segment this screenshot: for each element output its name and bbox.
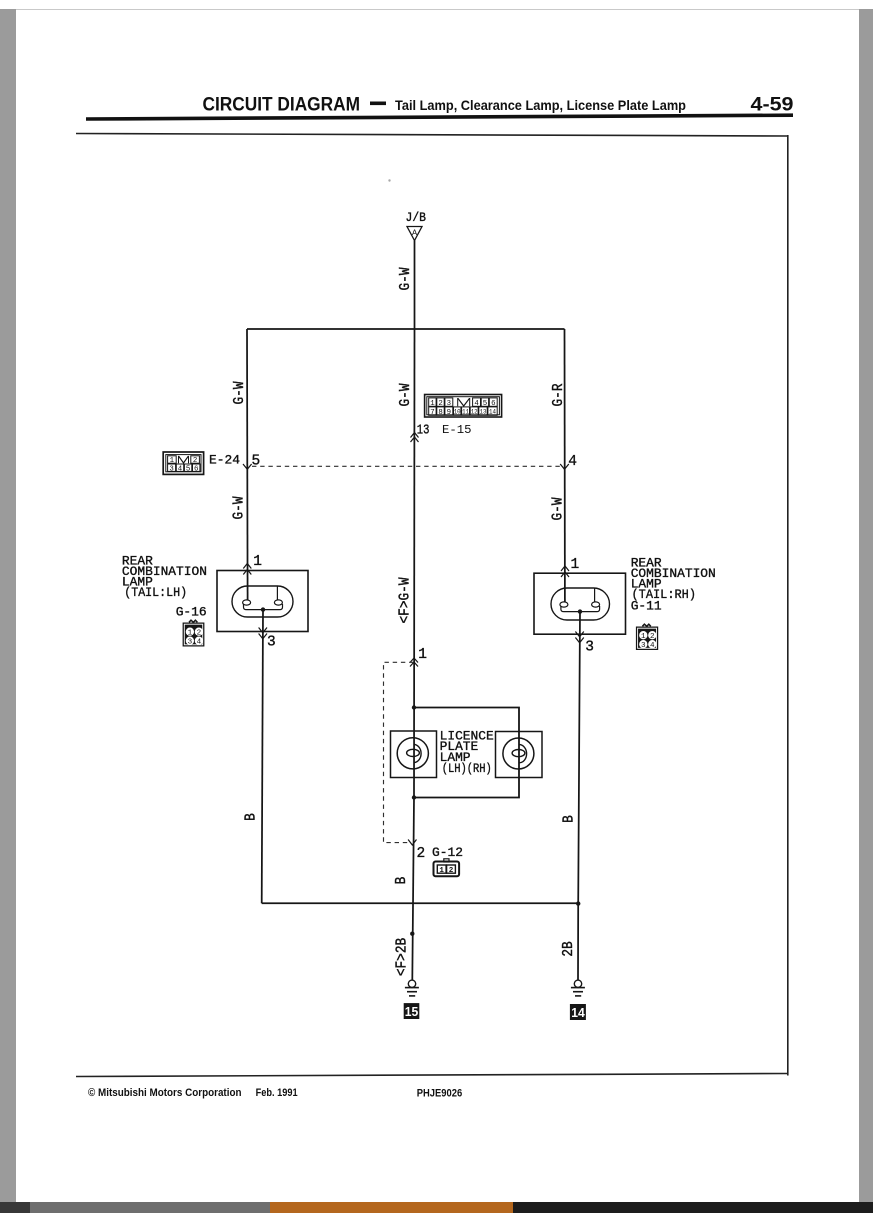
svg-text:1: 1: [188, 630, 193, 638]
svg-text:<F>2B: <F>2B: [395, 938, 411, 976]
frame right: [787, 135, 789, 1076]
wire: right lamp exit down to bottom bus and ground: [578, 612, 580, 981]
connector G-11 icon: [636, 624, 658, 650]
svg-text:2: 2: [197, 630, 202, 638]
svg-text:J/B: J/B: [406, 211, 427, 225]
scan speck: [388, 179, 390, 181]
node 13 chevrons up on center wire: [411, 433, 419, 443]
wire: J/B feed down to top bus: [414, 241, 416, 330]
svg-text:G-11: G-11: [631, 599, 662, 614]
svg-text:2: 2: [193, 457, 197, 465]
svg-text:G-W: G-W: [232, 496, 248, 520]
header title: [203, 94, 794, 116]
node: bus meets right lamp wire: [576, 901, 580, 905]
svg-text:13: 13: [480, 409, 487, 417]
svg-text:2B: 2B: [561, 941, 577, 956]
right viewer strip: [859, 9, 873, 1202]
bulb filament left: [243, 586, 283, 610]
connector E-24 pin box: [163, 452, 203, 474]
lamp: right rear combination lamp box: [534, 573, 626, 634]
node: licence top junction: [412, 705, 416, 709]
svg-text:4: 4: [178, 465, 183, 473]
svg-text:5: 5: [483, 400, 487, 408]
svg-text:7: 7: [430, 409, 434, 417]
svg-text:2: 2: [650, 633, 655, 641]
wire: right branch down to right lamp bulb: [564, 329, 566, 602]
svg-text:8: 8: [438, 409, 442, 417]
svg-text:CIRCUIT DIAGRAM: CIRCUIT DIAGRAM: [203, 94, 361, 116]
dashed licence loop: [384, 662, 414, 842]
svg-text:G-W: G-W: [232, 381, 248, 405]
svg-text:2: 2: [438, 400, 442, 408]
connector E-15 labels: [417, 423, 472, 439]
footer: [88, 1087, 462, 1100]
svg-text:1: 1: [430, 400, 435, 408]
svg-text:PHJE9026: PHJE9026: [417, 1088, 463, 1100]
svg-text:13: 13: [417, 423, 430, 439]
svg-text:(LH)(RH): (LH)(RH): [442, 761, 492, 776]
bottom bar segment orange: [270, 1202, 513, 1213]
svg-text:4-59: 4-59: [751, 94, 794, 116]
bottom bar segment dark-left: [0, 1202, 30, 1213]
connector G-12 icon: [434, 859, 460, 877]
svg-text:3: 3: [169, 465, 173, 473]
svg-text:3: 3: [188, 639, 193, 647]
wire: left branch down to left lamp bulb: [246, 329, 249, 600]
svg-text:15: 15: [405, 1004, 419, 1019]
node: splice below bus on center wire: [410, 932, 414, 936]
svg-text:3: 3: [267, 635, 276, 651]
svg-text:© Mitsubishi Motors Corporatio: © Mitsubishi Motors Corporation: [88, 1087, 242, 1099]
frame top: [76, 134, 788, 137]
node: licence bottom junction: [412, 795, 416, 799]
wire: center down to ground: [412, 798, 414, 980]
svg-text:(TAIL:LH): (TAIL:LH): [124, 585, 187, 600]
licence left bulb: [397, 738, 428, 769]
svg-text:6: 6: [194, 465, 198, 473]
svg-text:E-24: E-24: [209, 453, 240, 468]
svg-text:1: 1: [439, 867, 444, 875]
svg-text:A: A: [412, 228, 418, 238]
connector J/B triangle A: [406, 211, 427, 241]
connector E-24 pin cells: [168, 456, 200, 472]
chevrons up licence entry: [410, 658, 418, 667]
svg-text:9: 9: [447, 409, 451, 417]
svg-text:4: 4: [474, 400, 479, 408]
ground 14: [571, 980, 585, 996]
licence left bulb box: [391, 731, 437, 778]
bulb stadium right: [551, 588, 610, 620]
svg-text:B: B: [394, 877, 410, 885]
svg-text:2: 2: [417, 846, 426, 862]
licence lamp outer box: [414, 708, 519, 798]
svg-text:1: 1: [641, 633, 646, 641]
left viewer strip: [0, 9, 16, 1202]
svg-text:1: 1: [253, 554, 262, 570]
arrow down at pin 4: [560, 464, 569, 469]
svg-text:1: 1: [571, 557, 580, 573]
svg-text:3: 3: [447, 400, 451, 408]
ground ref box 14: [570, 1004, 586, 1020]
svg-text:B: B: [562, 815, 578, 823]
svg-text:2: 2: [449, 867, 454, 875]
svg-text:<F>G-W: <F>G-W: [398, 577, 414, 624]
arrow down at pin 5: [243, 464, 252, 469]
arrow down at pin 2: [408, 840, 416, 846]
frame bottom: [76, 1074, 788, 1077]
svg-text:14: 14: [571, 1005, 585, 1020]
REAR COMBINATION LAMP (TAIL:LH) text: [122, 554, 207, 620]
wire: center branch down to licence lamp: [413, 329, 416, 798]
connector E-15 pin digits: [430, 400, 496, 417]
LICENCE PLATE LAMP text: [440, 728, 494, 776]
svg-text:G-16: G-16: [176, 605, 207, 620]
header rule: [86, 113, 793, 120]
bottom bar segment gray: [30, 1202, 270, 1213]
bottom bar segment black: [513, 1202, 873, 1213]
node: right bulb output junction: [578, 609, 582, 613]
chevrons down left lamp exit: [259, 628, 267, 639]
ground ref box 15: [404, 1003, 420, 1019]
svg-text:1: 1: [170, 457, 175, 465]
connector E-15 pin cells bottom row: [429, 407, 497, 415]
chevrons down right lamp exit: [575, 632, 583, 643]
connector G-16 icon: [183, 620, 205, 646]
connector E-24 pin digits: [169, 457, 198, 473]
bulb filament right: [560, 588, 600, 612]
svg-text:10: 10: [454, 409, 461, 417]
wire: left lamp exit down to bottom bus: [262, 610, 263, 904]
svg-text:5: 5: [252, 454, 261, 470]
svg-text:11: 11: [462, 409, 469, 417]
connector E-15 pin box: [425, 395, 502, 418]
lamp: left rear combination lamp box: [217, 571, 308, 632]
top bar separator: [0, 9, 873, 10]
svg-text:6: 6: [491, 400, 495, 408]
dashed E-24 link line: [252, 465, 560, 467]
ground 15: [405, 980, 419, 996]
wire: bottom bus: [262, 902, 579, 904]
svg-text:14: 14: [489, 409, 496, 417]
svg-text:E-15: E-15: [442, 423, 472, 437]
svg-text:4: 4: [568, 454, 577, 470]
svg-text:5: 5: [186, 465, 190, 473]
node: left bulb output junction: [261, 607, 265, 611]
svg-text:G-12: G-12: [432, 845, 463, 860]
REAR COMBINATION LAMP (TAIL:RH) text: [631, 556, 716, 614]
svg-text:3: 3: [641, 642, 646, 650]
svg-text:1: 1: [418, 647, 427, 663]
connector E-15 pin cells top row: [429, 398, 497, 406]
svg-text:3: 3: [585, 640, 594, 656]
svg-text:G-W: G-W: [398, 383, 414, 407]
svg-text:G-W: G-W: [551, 497, 567, 521]
svg-text:B: B: [244, 813, 260, 821]
licence right bulb box: [496, 732, 543, 778]
chevrons up right lamp entry: [561, 566, 569, 577]
wire: top bus: [247, 328, 565, 330]
svg-text:G-R: G-R: [551, 383, 567, 406]
svg-text:4: 4: [197, 639, 202, 647]
svg-text:Feb. 1991: Feb. 1991: [256, 1087, 298, 1099]
licence right bulb: [503, 738, 534, 769]
bulb stadium left: [232, 586, 293, 617]
svg-text:4: 4: [650, 642, 655, 650]
svg-text:Tail Lamp, Clearance Lamp, Lic: Tail Lamp, Clearance Lamp, License Plate…: [395, 98, 686, 113]
chevrons up left lamp entry: [243, 564, 251, 575]
svg-text:12: 12: [471, 409, 478, 417]
svg-text:G-W: G-W: [398, 267, 414, 291]
